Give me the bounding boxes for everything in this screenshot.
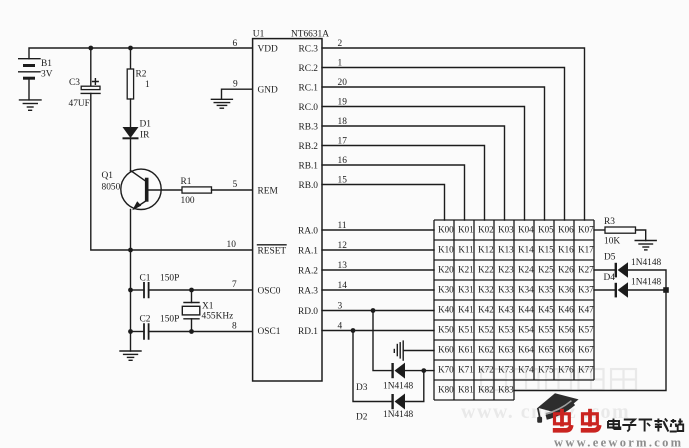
diode D2 1N4148: [356, 394, 414, 423]
svg-text:18: 18: [338, 117, 348, 127]
svg-text:K75: K75: [538, 364, 554, 374]
wire R2 to D1: [130, 99, 132, 127]
wire RA.1 pin 12 to key row: [322, 249, 434, 251]
svg-text:19: 19: [338, 98, 348, 108]
svg-text:8050: 8050: [102, 183, 121, 193]
wire comb to key row K6x: [403, 350, 434, 352]
svg-text:K06: K06: [558, 224, 574, 234]
wire C1 to OSC0 pin 7: [149, 289, 253, 291]
wire RC/RB pin 15 to key column: [322, 185, 445, 221]
svg-text:K67: K67: [578, 344, 594, 354]
svg-text:20: 20: [338, 78, 348, 88]
watermark logo site name glyphs: [608, 419, 683, 432]
svg-text:K30: K30: [438, 284, 454, 294]
svg-text:K57: K57: [578, 324, 594, 334]
watermark logo red glyph: [553, 409, 572, 431]
wire top rail to R2: [130, 48, 132, 69]
svg-text:K34: K34: [518, 284, 534, 294]
svg-text:47UF: 47UF: [69, 99, 90, 109]
svg-text:K27: K27: [578, 264, 594, 274]
svg-text:K65: K65: [538, 344, 554, 354]
svg-text:K52: K52: [478, 324, 494, 334]
transistor Q1 8050: [102, 169, 162, 210]
wire Q1 emitter to ground rail: [130, 210, 132, 352]
svg-text:K45: K45: [538, 304, 554, 314]
svg-text:RA.2: RA.2: [298, 267, 318, 277]
svg-text:K15: K15: [538, 244, 554, 254]
svg-text:REM: REM: [258, 187, 279, 197]
svg-text:K41: K41: [458, 304, 474, 314]
svg-text:U1: U1: [253, 30, 265, 40]
svg-text:RC.2: RC.2: [298, 64, 318, 74]
svg-text:D2: D2: [356, 413, 368, 423]
svg-text:K20: K20: [438, 264, 454, 274]
wire R3 to ground: [636, 230, 646, 241]
svg-text:5: 5: [233, 180, 238, 190]
svg-text:D3: D3: [356, 383, 368, 393]
node junction top rail / C3: [88, 46, 93, 51]
svg-text:100: 100: [181, 196, 195, 206]
svg-text:RB.2: RB.2: [298, 142, 318, 152]
svg-text:1N4148: 1N4148: [631, 278, 662, 288]
node junction RD.1: [351, 328, 356, 333]
svg-text:1N4148: 1N4148: [631, 258, 662, 268]
capacitor C1 150P: [131, 274, 180, 299]
ground (GND pin): [211, 99, 232, 108]
svg-text:K37: K37: [578, 284, 594, 294]
svg-text:K70: K70: [438, 364, 454, 374]
wire RD.1 junction down to D2: [353, 331, 393, 402]
svg-text:D4: D4: [604, 273, 616, 283]
wire junction down to K83 row: [514, 290, 666, 391]
svg-text:K01: K01: [458, 224, 474, 234]
ground (R3): [635, 241, 656, 250]
wire RC/RB pin 1 to key column: [322, 68, 565, 221]
svg-text:C2: C2: [140, 315, 151, 325]
svg-text:K66: K66: [558, 344, 574, 354]
svg-text:RD.1: RD.1: [298, 327, 318, 337]
wire D5 to junction: [628, 270, 666, 290]
svg-text:1: 1: [145, 80, 150, 90]
svg-text:150P: 150P: [160, 274, 179, 284]
svg-text:K17: K17: [578, 244, 594, 254]
resistor R3 10K: [604, 217, 636, 247]
svg-text:K11: K11: [458, 244, 473, 254]
svg-text:K35: K35: [538, 284, 554, 294]
wire D3 to key row K7x: [405, 370, 434, 372]
wire R1 to REM pin 5: [212, 189, 253, 191]
resistor R1 100: [181, 177, 212, 206]
svg-text:RA.1: RA.1: [298, 247, 318, 257]
diode D1 IR: [123, 120, 152, 141]
wire RA.0 pin 11 to key row: [322, 229, 434, 231]
svg-text:11: 11: [338, 221, 347, 231]
svg-text:10K: 10K: [604, 237, 620, 247]
contact comb symbol K6x row: [394, 341, 403, 360]
svg-text:RA.0: RA.0: [298, 227, 318, 237]
svg-text:K55: K55: [538, 324, 554, 334]
ground (oscillator): [120, 351, 141, 360]
crystal X1 455KHz: [182, 290, 233, 332]
svg-text:NT6631A: NT6631A: [291, 30, 329, 40]
svg-text:K40: K40: [438, 304, 454, 314]
svg-text:RB.1: RB.1: [298, 162, 318, 172]
node junction D4/D5: [663, 287, 669, 293]
svg-text:K63: K63: [498, 344, 514, 354]
wire Q1 base to R1: [149, 189, 183, 191]
svg-text:K73: K73: [498, 364, 514, 374]
op-amp U1 NT6631A (IC box): [253, 30, 330, 382]
svg-text:K62: K62: [478, 344, 494, 354]
node junction OSC1 / X1: [189, 329, 194, 334]
watermark logo graduation cap: [537, 393, 578, 423]
svg-text:K64: K64: [518, 344, 534, 354]
wire RA.2 pin 13 to key row: [322, 269, 434, 271]
wire K2x row to D5: [594, 269, 615, 271]
svg-text:K32: K32: [478, 284, 494, 294]
svg-text:IR: IR: [140, 131, 150, 141]
wire RD.1 pin 4 to key row K5x: [322, 330, 434, 332]
wire C3 to RESET rail: [91, 93, 253, 250]
svg-text:K02: K02: [478, 224, 494, 234]
node junction top rail / R2: [128, 46, 133, 51]
wire K07 row to R3: [594, 229, 605, 231]
svg-text:K22: K22: [478, 264, 494, 274]
svg-text:10: 10: [227, 240, 237, 250]
svg-text:455KHz: 455KHz: [202, 312, 234, 322]
svg-text:K74: K74: [518, 364, 534, 374]
svg-text:K25: K25: [538, 264, 554, 274]
diode D4 1N4148: [604, 273, 662, 298]
capacitor C3 47UF: [69, 78, 101, 109]
wire top rail to C3: [90, 48, 92, 86]
svg-text:K61: K61: [458, 344, 474, 354]
svg-text:3V: 3V: [41, 70, 53, 80]
svg-text:K51: K51: [458, 324, 474, 334]
svg-text:C1: C1: [140, 274, 151, 284]
wire RC/RB pin 16 to key column: [322, 165, 465, 220]
svg-text:K03: K03: [498, 224, 514, 234]
wire C2 to OSC1 pin 8: [149, 331, 253, 333]
wire D4 to junction: [628, 289, 666, 291]
wire K3x row to D4: [594, 289, 615, 291]
svg-text:K44: K44: [518, 304, 534, 314]
svg-text:1: 1: [338, 59, 343, 69]
battery B1 3V: [19, 59, 53, 80]
svg-text:K42: K42: [478, 304, 494, 314]
svg-text:K43: K43: [498, 304, 514, 314]
svg-text:OSC1: OSC1: [258, 327, 281, 337]
svg-text:B1: B1: [41, 59, 52, 69]
resistor R2 1: [127, 69, 150, 99]
svg-text:R2: R2: [136, 70, 147, 80]
svg-text:RC.1: RC.1: [298, 84, 318, 94]
svg-text:K00: K00: [438, 224, 454, 234]
diode D3 1N4148: [356, 363, 414, 393]
svg-text:D1: D1: [140, 120, 152, 130]
svg-text:K46: K46: [558, 304, 574, 314]
watermark faint cndzz text: [481, 369, 636, 390]
svg-text:R3: R3: [604, 217, 615, 227]
svg-text:K76: K76: [558, 364, 574, 374]
wire RC/RB pin 20 to key column: [322, 87, 545, 220]
wire RC/RB pin 2 to key column: [322, 48, 585, 220]
svg-text:K05: K05: [538, 224, 554, 234]
wire D1 to Q1 collector: [130, 138, 132, 171]
svg-text:13: 13: [338, 261, 348, 271]
node junction OSC0 / X1: [189, 288, 194, 293]
svg-text:K13: K13: [498, 244, 514, 254]
svg-text:K16: K16: [558, 244, 574, 254]
node junction emitter / RESET rail: [128, 248, 133, 253]
svg-text:VDD: VDD: [258, 45, 279, 55]
svg-text:RB.0: RB.0: [298, 181, 318, 191]
svg-text:K72: K72: [478, 364, 494, 374]
svg-text:K82: K82: [478, 384, 494, 394]
svg-text:RA.3: RA.3: [298, 287, 318, 297]
svg-text:K31: K31: [458, 284, 474, 294]
svg-text:K23: K23: [498, 264, 514, 274]
svg-text:K71: K71: [458, 364, 474, 374]
svg-text:K24: K24: [518, 264, 534, 274]
node junction RD.0: [371, 308, 376, 313]
diode D5 1N4148: [604, 253, 662, 278]
svg-text:K14: K14: [518, 244, 534, 254]
svg-text:12: 12: [338, 241, 348, 251]
svg-text:9: 9: [233, 80, 238, 90]
svg-text:1N4148: 1N4148: [383, 382, 414, 392]
ground (battery): [20, 100, 42, 110]
svg-text:X1: X1: [202, 302, 214, 312]
svg-text:www.eeworm.com: www.eeworm.com: [554, 436, 683, 448]
svg-text:8: 8: [232, 322, 237, 332]
svg-text:K04: K04: [518, 224, 534, 234]
svg-text:GND: GND: [258, 86, 279, 96]
svg-text:D5: D5: [604, 253, 616, 263]
svg-text:7: 7: [232, 280, 237, 290]
svg-text:RB.3: RB.3: [298, 123, 318, 133]
wire VDD top rail: [29, 48, 253, 59]
node junction D3/D2: [421, 368, 426, 373]
svg-text:3: 3: [338, 302, 343, 312]
node junction emitter rail / C1: [128, 288, 133, 293]
wire RA.3 pin 14 to key row: [322, 289, 434, 291]
wire RD.0 junction down to D3: [373, 311, 393, 371]
wire battery to ground: [28, 78, 30, 100]
svg-text:K81: K81: [458, 384, 474, 394]
svg-text:K53: K53: [498, 324, 514, 334]
svg-text:15: 15: [338, 176, 348, 186]
svg-text:K07: K07: [578, 224, 594, 234]
svg-text:K80: K80: [438, 384, 454, 394]
svg-text:K12: K12: [478, 244, 494, 254]
wire RC/RB pin 18 to key column: [322, 126, 505, 220]
svg-text:6: 6: [233, 39, 238, 49]
svg-text:K54: K54: [518, 324, 534, 334]
svg-text:K26: K26: [558, 264, 574, 274]
svg-text:C3: C3: [69, 78, 80, 88]
key matrix grid: [434, 220, 594, 400]
svg-text:R1: R1: [181, 177, 192, 187]
svg-text:K77: K77: [578, 364, 594, 374]
wire RD.0 pin 3 to key row K4x: [322, 310, 434, 312]
svg-text:2: 2: [338, 39, 343, 49]
wire RC/RB pin 19 to key column: [322, 107, 525, 221]
watermark logo red glyph: [581, 409, 600, 431]
svg-text:16: 16: [338, 156, 348, 166]
svg-text:RC.3: RC.3: [298, 45, 318, 55]
svg-text:K33: K33: [498, 284, 514, 294]
svg-text:K83: K83: [498, 384, 514, 394]
svg-text:14: 14: [338, 281, 348, 291]
svg-text:K56: K56: [558, 324, 574, 334]
svg-text:17: 17: [338, 137, 348, 147]
svg-text:K47: K47: [578, 304, 594, 314]
svg-text:K60: K60: [438, 344, 454, 354]
svg-text:K50: K50: [438, 324, 454, 334]
svg-text:RC.0: RC.0: [298, 103, 318, 113]
wire GND pin 9: [222, 89, 253, 99]
svg-text:1N4148: 1N4148: [383, 410, 414, 420]
svg-text:RD.0: RD.0: [298, 307, 318, 317]
svg-text:Q1: Q1: [102, 171, 114, 181]
svg-text:K36: K36: [558, 284, 574, 294]
wire RC/RB pin 17 to key column: [322, 146, 485, 221]
node junction emitter rail / C2: [128, 329, 133, 334]
capacitor C2 150P: [131, 315, 180, 340]
svg-text:4: 4: [338, 322, 343, 332]
svg-text:RESET: RESET: [258, 247, 287, 257]
svg-text:K10: K10: [438, 244, 454, 254]
wire junction down to D2 output: [405, 371, 424, 402]
svg-text:K21: K21: [458, 264, 474, 274]
svg-text:OSC0: OSC0: [258, 287, 281, 297]
svg-text:150P: 150P: [160, 315, 179, 325]
